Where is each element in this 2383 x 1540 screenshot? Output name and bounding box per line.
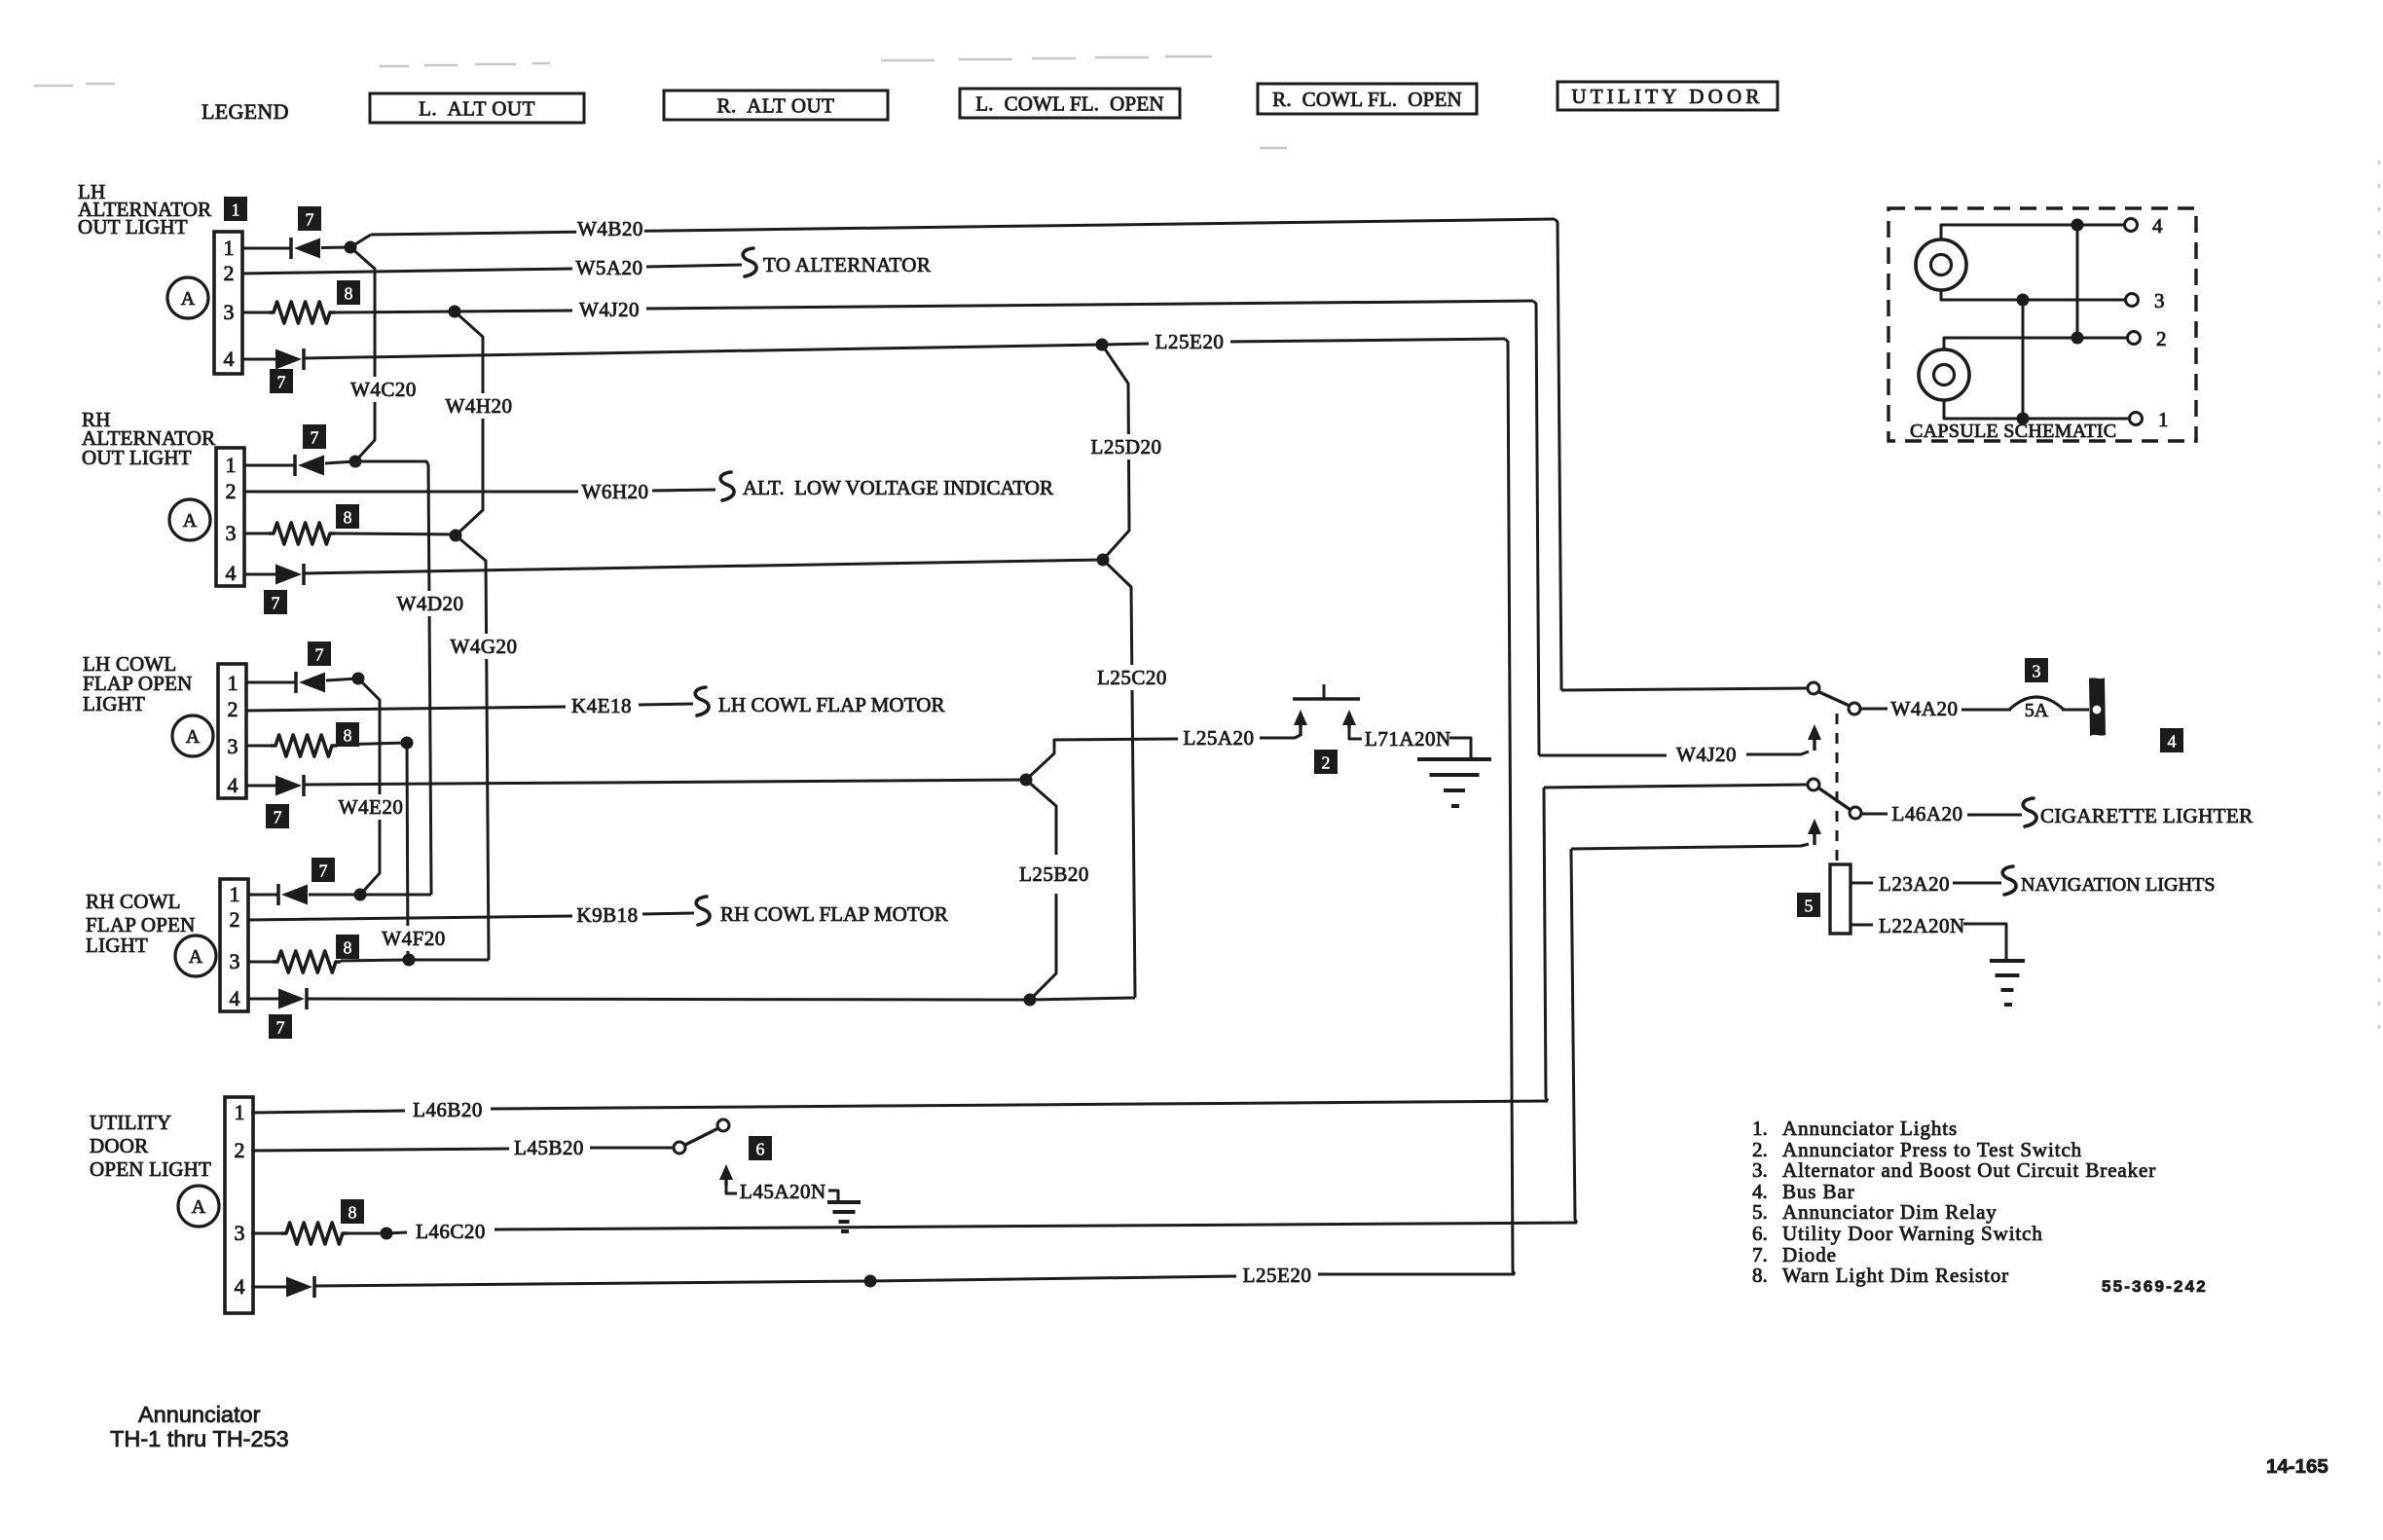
wire junction to W4D20 corner xyxy=(360,894,431,897)
wire capsule cross link 3-1 xyxy=(2022,300,2025,419)
bus bar (item 4) xyxy=(2089,678,2106,736)
wire L25D20 vertical xyxy=(1102,345,1129,560)
wire W4A20 to breaker xyxy=(1961,709,2011,712)
svg-text:OPEN LIGHT: OPEN LIGHT xyxy=(90,1157,211,1181)
svg-text:6.: 6. xyxy=(1752,1222,1768,1245)
svg-text:L46A20: L46A20 xyxy=(1892,802,1963,825)
capsule terminal 2 xyxy=(2128,332,2141,345)
wire label W4J20 xyxy=(1672,742,1741,767)
svg-text:L25C20: L25C20 xyxy=(1097,666,1167,689)
svg-text:W4J20: W4J20 xyxy=(1676,743,1737,766)
node W4J20 junction on LH ALT pin3 xyxy=(449,306,461,318)
legend header box: R.&#160; COWL FL.&#160; OPEN xyxy=(1258,84,1477,114)
dim relay actuation dashed link xyxy=(1836,714,1839,862)
dim source switch blade xyxy=(1819,788,1851,810)
dim relay movable contact (L46C20) xyxy=(1808,819,1821,845)
wire L25D20 row to junction xyxy=(304,560,1103,573)
wire label W4B20 xyxy=(576,216,644,241)
node splice on L46C20 xyxy=(381,1228,393,1240)
svg-text:1: 1 xyxy=(232,201,240,220)
svg-text:ALT. LOW VOLTAGE INDICATOR: ALT. LOW VOLTAGE INDICATOR xyxy=(743,476,1053,499)
svg-text:L23A20: L23A20 xyxy=(1879,872,1950,896)
svg-text:4: 4 xyxy=(224,347,235,371)
svg-text:2: 2 xyxy=(230,907,240,932)
wire L25E20 to corner xyxy=(1318,1273,1515,1276)
capsule terminal 3 xyxy=(2126,294,2139,307)
wire L45A20N to ground xyxy=(828,1191,838,1200)
legend header box: L.&#160; COWL FL.&#160; OPEN xyxy=(960,89,1180,118)
svg-text:NAVIGATION LIGHTS: NAVIGATION LIGHTS xyxy=(2021,874,2216,896)
svg-text:2: 2 xyxy=(1322,753,1331,773)
wire resistor to junction xyxy=(337,743,407,745)
wire W4B20 to breaker switch xyxy=(1561,688,1807,690)
diode CR1 (item 7) xyxy=(291,238,320,259)
wire LH COWL pin1 to diode xyxy=(245,681,296,684)
wire UTILITY pin3 stub xyxy=(251,1232,281,1235)
svg-text:7: 7 xyxy=(306,210,314,230)
wire W4J20 run xyxy=(455,311,572,312)
wire label L25D20 xyxy=(1086,434,1165,459)
svg-text:W4C20: W4C20 xyxy=(350,378,417,401)
ground for L45A20N xyxy=(827,1202,861,1231)
wire to W4A20 label xyxy=(1860,708,1888,711)
diode CR5 (item 7) xyxy=(296,672,325,693)
node W4H20/W4G20 junction xyxy=(450,530,462,542)
svg-text:CIGARETTE LIGHTER: CIGARETTE LIGHTER xyxy=(2040,804,2254,827)
wire W4F20 vertical (LH cowl pin3 to RH cowl pin3) xyxy=(407,743,408,960)
legend header box: UTILITY DOOR xyxy=(1558,82,1778,110)
wire label L25A20 xyxy=(1179,725,1258,751)
wire junction to L25C20 corner xyxy=(1030,998,1135,1000)
item tag 8: warn light dim resistor R3 xyxy=(336,722,359,747)
wire RH COWL pin3 stub xyxy=(247,961,273,964)
wire capsule pin4 line xyxy=(1941,225,2124,239)
capsule schematic dashed enclosure xyxy=(1888,208,2196,441)
wire L25E20 run xyxy=(304,345,1102,358)
dim source switch lower contact xyxy=(1850,807,1861,819)
wire label W4E20 xyxy=(337,794,405,820)
svg-text:LIGHT: LIGHT xyxy=(86,934,148,957)
item tag 7: diode RH cowl pin4 xyxy=(269,1014,292,1039)
svg-text:2: 2 xyxy=(228,697,238,721)
break symbol L23A20 xyxy=(2002,866,2016,895)
wire resistor to W4J20 junction xyxy=(335,312,455,312)
svg-text:7: 7 xyxy=(315,645,324,665)
svg-text:LEGEND: LEGEND xyxy=(202,99,289,124)
wire L46B20 from UTILITY pin1 xyxy=(251,1111,405,1113)
svg-text:7: 7 xyxy=(277,373,286,392)
wire label L46C20 xyxy=(411,1219,490,1244)
svg-text:OUT LIGHT: OUT LIGHT xyxy=(82,446,192,469)
utility door warning switch open contact xyxy=(717,1119,729,1131)
svg-text:4: 4 xyxy=(226,561,237,585)
press to test switch bar (item 2) xyxy=(1293,697,1360,700)
svg-text:1: 1 xyxy=(235,1100,245,1124)
svg-text:3: 3 xyxy=(235,1221,245,1245)
wire label L45B20 xyxy=(509,1135,588,1160)
svg-text:7: 7 xyxy=(274,808,282,827)
svg-text:3: 3 xyxy=(2033,662,2041,681)
svg-text:4: 4 xyxy=(2152,214,2163,238)
node W4F20 junction on LH cowl pin3 xyxy=(401,737,414,750)
svg-text:2: 2 xyxy=(2156,327,2167,350)
item tag 7: diode RH alt pin4 xyxy=(264,590,287,614)
svg-text:1.: 1. xyxy=(1752,1117,1768,1140)
node W4F20 junction on RH cowl pin3 xyxy=(403,954,416,967)
svg-text:OUT LIGHT: OUT LIGHT xyxy=(78,215,188,238)
svg-text:3: 3 xyxy=(2154,289,2165,312)
node L25D20 junction on RH ALT pin4 xyxy=(1097,554,1110,567)
item tag 7: diode LH cowl pin4 xyxy=(266,804,289,828)
wire capsule cross link 4-2 xyxy=(2076,225,2079,338)
svg-text:W4B20: W4B20 xyxy=(577,217,643,240)
wire W4J20 to label xyxy=(1539,754,1667,757)
wire relay to L23A20 label xyxy=(1851,882,1873,885)
wire LH COWL pin4 stub xyxy=(245,785,275,788)
svg-text:8.: 8. xyxy=(1752,1264,1768,1287)
item tag 7: diode LH cowl pin1 xyxy=(308,642,331,666)
wire label L25C20 xyxy=(1092,665,1171,690)
item tag 8: warn light dim resistor R2 xyxy=(336,504,359,529)
wire K9B18 from RH COWL pin2 xyxy=(247,916,572,920)
svg-text:L25D20: L25D20 xyxy=(1091,435,1162,458)
svg-text:DOOR: DOOR xyxy=(90,1134,148,1157)
wire W4B20 vertical xyxy=(1555,219,1561,690)
wire L71A20N to ground xyxy=(1449,738,1471,758)
svg-text:8: 8 xyxy=(344,938,352,958)
utility door switch spring arrow xyxy=(719,1164,733,1186)
svg-text:L71A20N: L71A20N xyxy=(1365,727,1451,751)
wire label W4G20 xyxy=(450,634,518,659)
alternator/boost switch blade xyxy=(1819,692,1850,706)
svg-text:4: 4 xyxy=(235,1274,245,1299)
wire diode to junction xyxy=(326,678,358,680)
resistor R5 warn light dim resistor (item 8) xyxy=(281,1223,348,1244)
svg-text:W4J20: W4J20 xyxy=(579,298,640,321)
svg-text:7: 7 xyxy=(311,428,319,448)
wire L23A20 to break xyxy=(1953,882,2001,885)
node L25E20 junction xyxy=(1096,339,1109,351)
wire diode to junction xyxy=(309,894,360,897)
wire L45B20 from UTILITY pin2 xyxy=(251,1149,509,1151)
svg-text:L25A20: L25A20 xyxy=(1184,726,1255,750)
indicator lamp circle A (LH alt) xyxy=(167,277,208,318)
wire L25E20 vertical (top right corner down to bottom run) xyxy=(1505,339,1515,1274)
break symbol K4E18 xyxy=(695,687,709,715)
wire junction to W4G20 corner xyxy=(409,959,489,962)
svg-text:5.: 5. xyxy=(1752,1200,1768,1224)
svg-text:L25B20: L25B20 xyxy=(1019,862,1089,886)
wire L25E20 bottom run xyxy=(314,1281,870,1286)
capsule lamp 1 xyxy=(1916,239,1966,290)
svg-text:A: A xyxy=(183,510,198,532)
press-to-test switch movable contact L71A20N xyxy=(1342,710,1356,728)
svg-text:L. ALT OUT: L. ALT OUT xyxy=(419,97,535,121)
dim source switch fixed contact xyxy=(1808,779,1819,790)
svg-text:W4G20: W4G20 xyxy=(451,635,518,658)
svg-text:3.: 3. xyxy=(1752,1158,1768,1182)
wire L46C20 vertical xyxy=(1571,849,1577,1223)
item tag 4: bus bar xyxy=(2160,728,2183,752)
svg-text:W6H20: W6H20 xyxy=(582,480,649,503)
resistor R3 warn light dim resistor (item 8) xyxy=(271,735,337,756)
node junction RH cowl pin1 xyxy=(354,889,367,901)
break symbol W6H20 xyxy=(720,472,734,500)
diode CR4 (item 7) xyxy=(275,564,304,585)
wire L46B20 vertical xyxy=(1544,788,1548,1101)
svg-text:2: 2 xyxy=(235,1138,245,1162)
svg-text:4: 4 xyxy=(2168,732,2177,752)
item tag 8: warn light dim resistor R4 xyxy=(336,935,359,959)
wire to W4D20 corner xyxy=(355,461,428,464)
wire W6H20 to break xyxy=(652,490,715,491)
capsule lamp 2 xyxy=(1919,349,1969,400)
wire L25E20 to corner xyxy=(1230,339,1505,342)
wire W4H20 vertical (LH alt pin3 to RH alt pin3) xyxy=(455,312,483,535)
wire capsule pin3 line xyxy=(1941,290,2125,300)
node capsule joints xyxy=(2071,219,2084,232)
svg-text:1: 1 xyxy=(2158,408,2169,431)
wire hook to L71A20N label xyxy=(1349,728,1362,739)
wire hook to L45A20N label xyxy=(726,1186,737,1193)
ground for L22A20N xyxy=(1990,961,2025,1005)
wire LH ALT pin4 stub xyxy=(242,358,275,361)
svg-text:2: 2 xyxy=(224,261,235,285)
wire W4J20 vertical xyxy=(1533,301,1539,755)
svg-text:1: 1 xyxy=(224,236,235,260)
wire label L46A20 xyxy=(1888,801,1966,826)
diode CR6 (item 7) xyxy=(275,775,304,796)
wire K9B18 to break xyxy=(642,913,694,914)
svg-text:1: 1 xyxy=(226,453,237,477)
svg-text:TO ALTERNATOR: TO ALTERNATOR xyxy=(763,253,931,276)
wire to label xyxy=(386,1232,407,1233)
svg-text:L46B20: L46B20 xyxy=(413,1098,483,1121)
svg-text:L46C20: L46C20 xyxy=(416,1220,486,1243)
indicator lamp circle A (utility) xyxy=(178,1186,219,1227)
wire resistor to splice xyxy=(348,1232,386,1235)
svg-text:5A: 5A xyxy=(2025,700,2049,721)
svg-text:W4H20: W4H20 xyxy=(446,394,513,418)
svg-text:L45B20: L45B20 xyxy=(514,1136,584,1159)
indicator lamp circle A (LH cowl) xyxy=(172,715,213,756)
connector RH cowl flap open light annunciator xyxy=(220,879,248,1011)
wire RH ALT pin4 stub xyxy=(244,573,275,576)
svg-text:Alternator and Boost Out Circu: Alternator and Boost Out Circuit Breaker xyxy=(1782,1158,2156,1182)
svg-text:W4A20: W4A20 xyxy=(1891,697,1959,720)
wire L25C20 vertical xyxy=(1103,560,1135,998)
connector LH alternator out light annunciator xyxy=(214,232,242,374)
wire LH ALT pin3 stub xyxy=(242,312,269,314)
indicator lamp circle A (RH cowl) xyxy=(175,935,216,976)
diode CR7 (item 7) xyxy=(278,884,308,905)
resistor R1 warn light dim resistor (item 8) xyxy=(269,302,335,323)
svg-text:Annunciator: Annunciator xyxy=(138,1402,261,1427)
node W4E20 junction on LH cowl pin1 xyxy=(352,673,365,685)
svg-text:K9B18: K9B18 xyxy=(576,903,638,927)
wire L46A20 to break xyxy=(1967,814,2022,817)
wire RH COWL pin4 stub xyxy=(247,998,278,1001)
svg-text:L45A20N: L45A20N xyxy=(740,1180,826,1203)
circuit breaker 5A arc (item 3) xyxy=(2009,697,2064,710)
node L25B20 junction on RH cowl pin4 xyxy=(1024,994,1037,1007)
svg-text:L22A20N: L22A20N xyxy=(1879,914,1965,937)
wire L25A20 to test switch xyxy=(1260,735,1301,738)
item tag 3: alternator and boost out circuit breaker xyxy=(2025,658,2048,682)
svg-text:LH COWL FLAP MOTOR: LH COWL FLAP MOTOR xyxy=(718,693,945,716)
svg-text:L25E20: L25E20 xyxy=(1243,1264,1312,1287)
item tag 5: annunciator dim relay xyxy=(1797,893,1820,917)
wire to label xyxy=(870,1276,1236,1281)
svg-text:2: 2 xyxy=(226,479,237,503)
capsule terminal 1 xyxy=(2130,413,2143,425)
svg-text:A: A xyxy=(189,946,203,968)
wire LH COWL pin3 stub xyxy=(245,745,271,748)
wire L45B20 to switch xyxy=(590,1147,674,1150)
svg-text:8: 8 xyxy=(344,726,352,746)
connector LH cowl flap open light annunciator xyxy=(218,664,246,798)
diode CR3 (item 7) xyxy=(295,455,324,476)
wire L46C20 to relay contact xyxy=(1571,844,1809,849)
wire resistor to junction xyxy=(335,533,456,534)
item tag 8: warn light dim resistor R5 xyxy=(341,1199,364,1224)
wire label W4J20 xyxy=(575,297,643,322)
alternator/boost switch lower contact xyxy=(1849,703,1860,715)
wire W5A20 from LH ALT pin2 xyxy=(242,269,572,274)
wire RH COWL pin1 to diode xyxy=(247,894,278,897)
wire diode to junction xyxy=(325,461,355,463)
svg-text:4: 4 xyxy=(230,986,240,1010)
wire label K9B18 xyxy=(573,902,642,928)
item tag 7: diode RH cowl pin1 xyxy=(312,858,335,882)
wire capsule pin2 line xyxy=(1944,338,2127,349)
wire label L25E20 xyxy=(1237,1263,1316,1288)
wire W5A20 to break xyxy=(646,265,742,267)
svg-text:L25E20: L25E20 xyxy=(1155,330,1225,353)
svg-text:W4E20: W4E20 xyxy=(339,795,404,819)
wire W4G20 vertical (RH alt pin3 to RH cowl pin3) xyxy=(456,535,489,960)
wire label W4H20 xyxy=(445,393,513,419)
wire W4B20 riser diagonal xyxy=(350,235,371,247)
wire breaker to bus bar xyxy=(2062,709,2089,712)
item tag 6: utility door warning switch xyxy=(749,1136,772,1160)
svg-text:UTILITY: UTILITY xyxy=(90,1111,171,1134)
svg-text:5: 5 xyxy=(1805,897,1814,916)
wire UTILITY pin4 stub xyxy=(251,1286,286,1289)
resistor R4 warn light dim resistor (item 8) xyxy=(273,951,341,972)
svg-text:Annunciator Dim Relay: Annunciator Dim Relay xyxy=(1782,1200,1998,1224)
svg-text:Annunciator Lights: Annunciator Lights xyxy=(1782,1117,1958,1140)
svg-text:W5A20: W5A20 xyxy=(576,256,643,279)
svg-text:R. COWL FL. OPEN: R. COWL FL. OPEN xyxy=(1272,88,1462,111)
wire W4J20 to relay contact xyxy=(1746,752,1809,754)
svg-text:8: 8 xyxy=(348,1203,357,1223)
diode CR2 (item 7) xyxy=(275,348,304,370)
break symbol L46A20 xyxy=(2023,798,2036,826)
svg-text:K4E18: K4E18 xyxy=(571,694,632,717)
utility door warning switch fixed contact xyxy=(674,1142,685,1154)
wire label W4D20 xyxy=(396,591,464,616)
wire label L25E20 xyxy=(1150,329,1228,354)
svg-text:55-369-242: 55-369-242 xyxy=(2102,1277,2208,1296)
wire W4J20 long run to right corner xyxy=(646,301,1533,309)
wire L25A20 row to junction xyxy=(304,780,1026,785)
dim relay movable contact (W4J20) xyxy=(1808,724,1821,751)
wire W6H20 from RH ALT pin2 xyxy=(244,491,578,494)
svg-text:3: 3 xyxy=(230,949,240,973)
wire label W4A20 xyxy=(1890,696,1959,721)
annunciator dim relay coil (item 5) xyxy=(1830,864,1851,934)
svg-text:L. COWL FL. OPEN: L. COWL FL. OPEN xyxy=(975,92,1164,116)
svg-text:TH-1 thru TH-253: TH-1 thru TH-253 xyxy=(110,1426,289,1451)
press-to-test switch movable contact L25A20 xyxy=(1294,710,1307,736)
wire W4D20 vertical (RH alt pin1 to RH cowl pin1) xyxy=(428,464,431,895)
svg-text:W4F20: W4F20 xyxy=(382,927,446,950)
wire label W5A20 xyxy=(575,255,643,280)
item tag 7: diode LH alt pin1 xyxy=(298,206,321,231)
wire to L46A20 label xyxy=(1861,813,1888,816)
wire L22A20N to ground xyxy=(1963,924,2006,959)
legend header box: R.&#160; ALT OUT xyxy=(664,91,888,120)
wire diode to junction xyxy=(321,246,350,250)
ground for L71A20N xyxy=(1417,759,1491,806)
svg-text:3: 3 xyxy=(224,300,235,324)
svg-text:UTILITY DOOR: UTILITY DOOR xyxy=(1571,85,1763,108)
wire LH ALT pin1 to diode xyxy=(242,247,291,250)
connector utility door open light annunciator xyxy=(225,1097,253,1313)
item tag 1: annunciator lights xyxy=(224,197,247,221)
connector RH alternator out light annunciator xyxy=(216,448,244,586)
wire label K4E18 xyxy=(568,693,636,718)
wire relay to L22A20N label xyxy=(1851,924,1873,927)
node splice on bottom L25E20 xyxy=(864,1275,877,1288)
node W4B20 junction on LH ALT pin 1 xyxy=(345,241,357,254)
wire RH ALT pin1 to diode xyxy=(244,464,295,467)
svg-text:CAPSULE SCHEMATIC: CAPSULE SCHEMATIC xyxy=(1910,421,2116,442)
item tag 7: diode LH alt pin4 xyxy=(270,369,293,393)
wire K4E18 to break xyxy=(639,704,693,705)
break symbol K9B18 xyxy=(696,897,710,925)
svg-text:A: A xyxy=(192,1196,206,1218)
svg-text:Utility Door Warning Switch: Utility Door Warning Switch xyxy=(1782,1222,2043,1245)
wire label W4C20 xyxy=(349,377,418,402)
svg-text:7: 7 xyxy=(276,1018,285,1038)
wire to label xyxy=(1102,344,1149,345)
svg-text:8: 8 xyxy=(344,508,352,528)
wire K4E18 from LH COWL pin2 xyxy=(245,707,566,711)
wire L46C20 long run xyxy=(495,1223,1577,1229)
svg-text:3: 3 xyxy=(228,734,238,758)
capsule terminal 4 xyxy=(2125,219,2138,232)
wire L46B20 to lighter switch xyxy=(1544,785,1807,788)
svg-text:6: 6 xyxy=(756,1140,765,1159)
wire L25B20 vertical (LH cowl pin4 to RH cowl pin4) xyxy=(1026,780,1056,855)
wire label L25B20 xyxy=(1014,862,1093,887)
node W4C20/W4D20 junction xyxy=(349,456,362,468)
utility door warning switch blade xyxy=(685,1128,718,1145)
break symbol W5A20 xyxy=(743,248,756,276)
svg-text:1: 1 xyxy=(228,671,238,695)
svg-text:14-165: 14-165 xyxy=(2266,1455,2328,1478)
resistor R2 warn light dim resistor (item 8) xyxy=(269,523,335,544)
wire label L46B20 xyxy=(408,1097,487,1122)
svg-text:8: 8 xyxy=(345,284,353,304)
svg-text:A: A xyxy=(186,726,201,748)
svg-text:A: A xyxy=(181,288,196,310)
wire W4C20 vertical (LH alt pin1 to RH alt pin1) xyxy=(350,247,375,461)
wire W4E20 vertical (LH cowl pin1 to RH cowl pin1) xyxy=(358,678,380,895)
item tag 2: annunciator press to test switch xyxy=(1314,750,1338,774)
